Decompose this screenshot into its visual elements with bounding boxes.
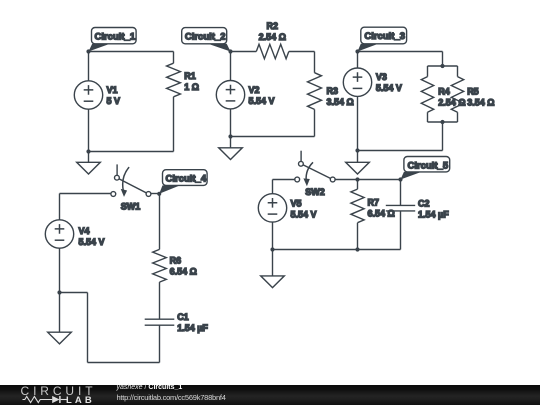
svg-text:6.54 Ω: 6.54 Ω [170,267,197,277]
svg-text:5.54 V: 5.54 V [376,83,402,93]
svg-text:SW1: SW1 [121,202,141,212]
svg-text:C2: C2 [418,199,430,209]
svg-text:C1: C1 [177,312,189,322]
svg-text:R6: R6 [170,256,182,266]
svg-text:1.54 µF: 1.54 µF [177,323,208,333]
svg-text:V4: V4 [79,226,90,236]
svg-text:V1: V1 [107,85,118,95]
svg-text:1 Ω: 1 Ω [184,82,199,92]
svg-text:5.54 V: 5.54 V [79,237,105,247]
svg-text:Circuit_1: Circuit_1 [94,31,135,42]
svg-text:Circuit_2: Circuit_2 [185,32,226,43]
svg-text:5.54 V: 5.54 V [291,209,317,219]
svg-text:3.54 Ω: 3.54 Ω [327,97,354,107]
svg-text:6.54 Ω: 6.54 Ω [368,209,395,219]
svg-text:V2: V2 [249,85,260,95]
svg-text:SW2: SW2 [305,187,325,197]
svg-text:R3: R3 [327,86,339,96]
svg-text:R2: R2 [267,21,279,31]
svg-text:Circuit_5: Circuit_5 [407,160,448,171]
svg-text:V3: V3 [376,72,387,82]
svg-text:2.54 Ω: 2.54 Ω [438,97,465,107]
svg-text:2.54 Ω: 2.54 Ω [259,32,286,42]
svg-text:R5: R5 [467,86,479,96]
svg-text:R4: R4 [438,86,450,96]
svg-text:5.54 V: 5.54 V [249,96,275,106]
svg-text:Circuit_3: Circuit_3 [364,31,405,42]
svg-text:R1: R1 [184,71,196,81]
svg-text:1.54 µF: 1.54 µF [418,210,449,220]
svg-text:Circuit_4: Circuit_4 [165,174,206,185]
svg-text:5 V: 5 V [107,96,121,106]
svg-text:R7: R7 [368,198,380,208]
svg-text:V5: V5 [291,198,302,208]
svg-text:3.54 Ω: 3.54 Ω [467,97,494,107]
